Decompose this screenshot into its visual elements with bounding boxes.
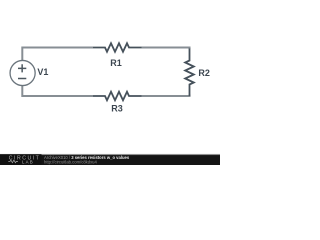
svg-text:LAB: LAB [22,159,34,164]
wire bottom rail left [22,95,93,97]
wire right top stub [189,47,191,50]
wire left bottom segment [21,86,23,98]
wire top rail right [142,47,190,49]
CircuitLab logo block [0,154,42,165]
resistor R2 [185,49,194,97]
svg-text:R2: R2 [198,68,210,78]
wire top rail left [22,47,93,49]
resistor R3 [93,92,142,101]
svg-text:http://circuitlab.com/c8kdxu4: http://circuitlab.com/c8kdxu4 [44,160,98,165]
svg-text:R1: R1 [110,58,122,68]
wire left top segment [21,47,23,61]
resistor R1 [93,43,142,52]
svg-text:V1: V1 [37,67,48,77]
voltage source V1 [10,60,35,85]
wire bottom rail right [142,95,190,97]
wire right bottom stub [189,95,191,98]
logo resistor zigzag [8,160,18,163]
svg-text:R3: R3 [111,104,123,114]
